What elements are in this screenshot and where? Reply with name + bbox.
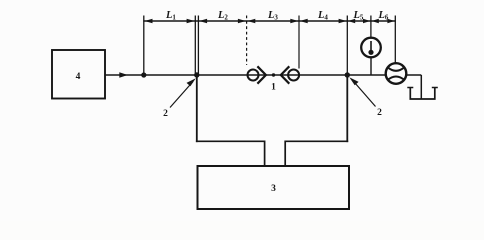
svg-text:4: 4 (76, 72, 81, 82)
svg-text:2: 2 (163, 109, 168, 119)
svg-text:3: 3 (271, 184, 276, 194)
svg-text:1: 1 (271, 83, 276, 93)
svg-text:2: 2 (377, 108, 382, 118)
